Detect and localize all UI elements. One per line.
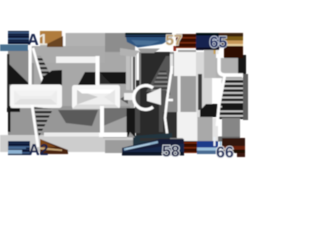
svg-text:A2: A2 [29, 142, 49, 159]
svg-text:1: 1 [39, 32, 48, 49]
svg-text:58: 58 [162, 144, 180, 161]
svg-text:57: 57 [166, 32, 183, 49]
svg-text:66: 66 [216, 145, 234, 162]
svg-text:A: A [28, 32, 39, 49]
svg-text:65: 65 [210, 35, 228, 52]
